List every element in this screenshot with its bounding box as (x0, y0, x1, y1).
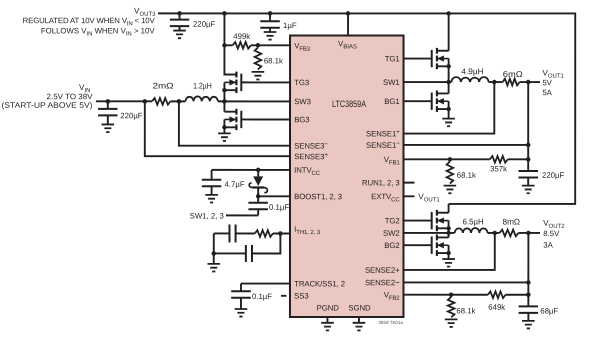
pin label INTVCC (294, 166, 321, 177)
svg-text:357k: 357k (490, 164, 507, 173)
pin label EXTVCC (371, 192, 400, 203)
junction SENSE2- on VOUT2 column (526, 280, 531, 285)
resistor R 649k (488, 291, 506, 298)
text regulated note line 1 (23, 16, 156, 27)
pin label SW1 (383, 78, 400, 87)
wire VFB1 from IC (404, 158, 490, 160)
pin label SW2 (383, 229, 400, 238)
wire ITH top branch left corner (214, 232, 230, 234)
label VIN (79, 83, 90, 94)
inductor L 6.5uH (455, 228, 488, 233)
wire ITH cap to resistor (236, 232, 255, 234)
label 68.1k VFB3 (264, 56, 283, 65)
label 220uF VOUT1 (542, 171, 565, 180)
svg-text:1µF: 1µF (283, 21, 297, 30)
ground for BG1 source (442, 109, 455, 126)
svg-text:SENSE3+: SENSE3+ (294, 152, 328, 161)
text regulated note line 2 (41, 26, 155, 37)
svg-text:SW3: SW3 (294, 97, 311, 106)
junction SENSE3- tap (177, 99, 182, 104)
label 4.9uH (461, 67, 483, 76)
wire VFB3 to divider mid (251, 44, 290, 46)
resistor R 68.1k VFB3 (255, 47, 262, 69)
label VOUT3 (134, 7, 156, 18)
svg-text:6.5µH: 6.5µH (463, 217, 484, 226)
junction VOUT1 divider top (526, 157, 531, 162)
pin label SGND (348, 304, 371, 313)
wire SENSE1- from IC (404, 144, 529, 146)
pin label SENSE1+ (366, 129, 400, 138)
junction SENSE3+ tap (143, 99, 148, 104)
ground for BG3 source (218, 127, 231, 141)
label 357k (490, 164, 507, 173)
ground for 4.7uF (205, 186, 218, 202)
ground for input cap (102, 115, 115, 132)
junction on VOUT3 rail at 220uF cap (177, 11, 182, 16)
svg-text:SW1, 2, 3: SW1, 2, 3 (190, 211, 224, 220)
pin label SS3 (294, 291, 308, 300)
wire VBIAS drop to IC (347, 13, 349, 36)
svg-text:220µF: 220µF (193, 20, 216, 29)
wire SENSE3+ kelvin (145, 101, 290, 156)
wire RUN stub (403, 182, 414, 184)
inductor L 1.2uH (185, 96, 218, 101)
junction VFB2 divider (449, 292, 454, 297)
wire inductor to 8mohm (488, 232, 500, 234)
ground for soft-start cap (235, 298, 248, 317)
ground for 68.1k VFB3 (252, 72, 265, 80)
wire INTVCC to IC (212, 169, 290, 171)
label 220uF input (120, 111, 143, 120)
text VIN startup note (2, 101, 93, 110)
wire BG2 drain to SW2 (448, 233, 450, 238)
ground for SGND pin (353, 317, 366, 330)
transistor Q BG3 bottom NFET (222, 109, 241, 130)
capacitor 68uF VOUT2 (519, 295, 539, 313)
wire TG1 drain to VOUT3 rail (448, 13, 450, 50)
svg-text:SENSE2+: SENSE2+ (365, 266, 400, 275)
svg-text:SW1: SW1 (383, 78, 400, 87)
wire ITH resistor to IC (273, 232, 290, 234)
capacitor 1uF (260, 13, 280, 27)
svg-text:68.1k: 68.1k (456, 306, 475, 315)
resistor R 2m ohm sense (152, 98, 171, 105)
pin label TG2 (385, 216, 400, 225)
label 6.5uH (463, 217, 484, 226)
op-amp U1 LTC3859A controller IC body (290, 35, 404, 317)
label 2mohm (153, 82, 174, 91)
wire 8mohm to VOUT2 (518, 232, 540, 234)
wire BOOST to IC (258, 195, 290, 197)
pin label SENSE2+ (365, 266, 400, 275)
text figure number (378, 320, 403, 325)
capacitor 220uF input (98, 101, 118, 117)
junction on VOUT3 rail at 1uF cap (268, 11, 273, 16)
pin label BG3 (294, 115, 309, 124)
svg-text:5V: 5V (542, 78, 552, 87)
ground for VOUT3 220uF (173, 26, 186, 38)
svg-text:3859 TA01a: 3859 TA01a (378, 320, 403, 325)
wire ITH bottom branch left (214, 252, 246, 254)
svg-text:0.1µF: 0.1µF (269, 203, 289, 212)
pin label BOOST1 2 3 (294, 192, 342, 201)
svg-text:6mΩ: 6mΩ (503, 70, 523, 79)
resistor R 6m ohm sense (503, 79, 520, 86)
resistor R 68.1k VFB1 (447, 162, 454, 184)
svg-text:PGND: PGND (317, 304, 340, 313)
transistor Q TG1 top NFET (432, 48, 451, 69)
svg-text:BG3: BG3 (294, 115, 309, 124)
wire VOUT1 column (527, 82, 529, 159)
ground for 1uF (264, 28, 277, 40)
junction VOUT2 divider top (526, 293, 531, 298)
wire 2mohm to inductor (171, 100, 186, 102)
pin label VBIAS (338, 39, 357, 50)
wire BG3 drain to SW3 (223, 101, 225, 111)
wire BG1 drain to SW1 (448, 82, 450, 93)
resistor R 499k (224, 42, 250, 49)
junction ITH ground node (212, 251, 217, 256)
svg-text:1.2µH: 1.2µH (193, 82, 212, 91)
svg-text:BG1: BG1 (384, 97, 399, 106)
node SW2 junction (446, 231, 451, 236)
wire boost cap to SW123 label (226, 214, 258, 216)
junction divider top (222, 43, 227, 48)
svg-text:SW2: SW2 (383, 229, 400, 238)
label 68.1k VFB1 (457, 171, 476, 180)
junction on VOUT3 rail at feedback divider column (222, 11, 227, 16)
resistor R ITH comp (255, 230, 273, 237)
junction divider mid VFB3 (256, 43, 261, 48)
label 68.1k VFB2 (456, 306, 475, 315)
pin label SW3 (294, 97, 311, 106)
svg-text:SGND: SGND (348, 304, 371, 313)
ground for ITH network (207, 253, 220, 271)
junction on VOUT3 rail at TG1 FET drain (446, 11, 451, 16)
wire SENSE2- from IC (403, 281, 528, 283)
pin label BG2 (384, 241, 399, 250)
label VOUT2 3A (543, 241, 553, 250)
node VOUT3 top rail wire (158, 13, 575, 204)
wire TRACK-SS to IC (241, 283, 290, 285)
capacitor ITH filter cap (246, 245, 252, 262)
svg-text:8mΩ: 8mΩ (503, 217, 521, 226)
svg-text:SENSE3−: SENSE3− (294, 141, 328, 150)
pin label SENSE3- (294, 141, 328, 150)
label 8mohm (503, 217, 521, 226)
ground for PGND pin (321, 317, 334, 330)
inductor L 4.9uH (452, 77, 489, 82)
transistor Q TG3 top NFET (222, 72, 241, 93)
pin label TRACK/SS1 2 (294, 279, 345, 288)
wire TG2 drain to rail (448, 204, 450, 213)
wire 6mohm to VOUT1 (520, 81, 541, 83)
wire inductor to SW3 node and SW3 pin (218, 100, 290, 102)
svg-text:BG2: BG2 (384, 241, 399, 250)
label SW1 2 3 (190, 211, 224, 220)
svg-text:3A: 3A (543, 241, 553, 250)
wire SENSE1+ kelvin (404, 82, 495, 134)
capacitor 220uF on VOUT3 (170, 13, 189, 27)
svg-text:4.7µF: 4.7µF (224, 180, 244, 189)
text VIN range (47, 92, 94, 101)
capacitor ITH series cap (229, 224, 235, 242)
svg-text:649k: 649k (488, 303, 505, 312)
svg-text:SENSE1−: SENSE1− (366, 141, 400, 150)
svg-text:TRACK/SS1, 2: TRACK/SS1, 2 (294, 279, 345, 288)
junction SENSE1+ tap (492, 80, 497, 85)
label VOUT1 (542, 68, 564, 79)
junction SENSE1- on VOUT1 column (526, 143, 531, 148)
resistor R 357k (490, 156, 508, 163)
pin label SENSE2- (365, 278, 400, 287)
svg-text:220µF: 220µF (120, 111, 143, 120)
pin label TG1 (385, 54, 400, 63)
wire 357k to VOUT1 column (508, 158, 528, 160)
wire ITH branch vertical left (213, 233, 215, 253)
wire ITH bottom branch right (252, 233, 280, 253)
capacitor 0.1uF soft-start (231, 284, 251, 298)
label 649k (488, 303, 505, 312)
junction SENSE2+ tap (493, 231, 498, 236)
wire BG2 gate to IC (403, 244, 431, 246)
junction INTVCC diode anode (256, 168, 261, 173)
label 4.7uF (224, 180, 244, 189)
label VOUT1 5A (542, 88, 552, 97)
transistor Q TG2 top NFET (432, 210, 451, 231)
svg-text:0.1µF: 0.1µF (252, 292, 272, 301)
wire VOUT3 column to divider and TG3 drain (224, 13, 236, 74)
label VOUT2 8.5V (543, 229, 560, 238)
svg-text:220µF: 220µF (542, 171, 565, 180)
wire VOUT2 column (527, 233, 529, 295)
svg-text:TG3: TG3 (294, 78, 309, 87)
wire BG3 gate to IC (241, 118, 290, 120)
ground for VOUT1 220uF (522, 177, 535, 193)
svg-text:68.1k: 68.1k (264, 56, 283, 65)
svg-text:5A: 5A (542, 88, 552, 97)
svg-text:4.9µH: 4.9µH (461, 67, 483, 76)
pin label ITH1 2 3 (294, 225, 321, 236)
pin label VFB1 (384, 155, 401, 166)
pin label PGND (317, 304, 340, 313)
label VOUT2 (543, 219, 565, 230)
node SW1 junction (446, 80, 451, 85)
pin label TG3 (294, 78, 309, 87)
svg-text:BOOST1, 2, 3: BOOST1, 2, 3 (294, 192, 342, 201)
wire VFB2 from IC (403, 294, 487, 296)
svg-text:SS3: SS3 (294, 291, 308, 300)
wire BG1 gate to IC (404, 100, 432, 102)
capacitor 220uF VOUT1 (518, 159, 538, 177)
resistor R 8m ohm sense (499, 230, 518, 237)
junction ITH pin node (278, 231, 283, 236)
svg-text:SENSE1+: SENSE1+ (366, 129, 400, 138)
svg-text:(START-UP ABOVE 5V): (START-UP ABOVE 5V) (2, 101, 93, 110)
pin label SENSE1- (366, 141, 400, 150)
wire 649k to VOUT2 column (506, 294, 529, 296)
svg-text:TG2: TG2 (385, 216, 400, 225)
transistor Q BG2 bottom NFET (432, 235, 451, 256)
label 6mohm (503, 70, 523, 79)
wire TG3 source to SW3 (223, 90, 225, 101)
pin label SENSE3+ (294, 152, 328, 161)
pin label VFB3 (294, 41, 311, 52)
svg-text:TG1: TG1 (385, 54, 400, 63)
wire TG2 gate to IC (403, 220, 431, 222)
node VOUT2 junction (526, 231, 531, 236)
svg-text:68.1k: 68.1k (457, 171, 476, 180)
junction on VOUT3 rail at VBIAS (346, 11, 351, 16)
wire SENSE2+ kelvin (403, 233, 494, 270)
svg-text:2mΩ: 2mΩ (153, 82, 174, 91)
svg-text:RUN1, 2, 3: RUN1, 2, 3 (362, 178, 400, 187)
wire SENSE3- kelvin (179, 101, 290, 145)
label 68uF (540, 306, 558, 315)
wire SS3 stub (281, 295, 287, 297)
wire VIN line (96, 100, 152, 102)
wire inductor to 6mohm (489, 81, 503, 83)
junction VFB1 divider (448, 157, 453, 162)
node SW3 junction (222, 99, 227, 104)
capacitor 0.1uF boost (248, 196, 268, 215)
resistor R 68.1k VFB2 (448, 297, 455, 317)
label VOUT1 at EXTVCC (418, 192, 440, 203)
svg-text:8.5V: 8.5V (543, 229, 560, 238)
text IC name LTC3859A (332, 99, 367, 109)
svg-text:LTC3859A: LTC3859A (332, 99, 367, 109)
label 499k (233, 32, 250, 41)
ground for 68.1k VFB2 (445, 319, 458, 327)
svg-text:SENSE2−: SENSE2− (365, 278, 400, 287)
label VOUT1 5V (542, 78, 552, 87)
ground for 68uF (522, 313, 535, 329)
wire TG2 source to SW2 (448, 228, 450, 233)
pin label RUN1 2 3 (362, 178, 400, 187)
wire TG1 gate to IC (404, 58, 432, 60)
junction VIN at input cap (106, 99, 111, 104)
diode D boost schottky (249, 170, 267, 196)
label 0.1uF boost (269, 203, 289, 212)
pin label BG1 (384, 97, 399, 106)
ground for BG2 source (442, 253, 455, 267)
label 1.2uH (193, 82, 212, 91)
capacitor 4.7uF INTVCC (202, 170, 222, 186)
node VOUT1 junction (526, 80, 531, 85)
wire EXTVCC stub (403, 195, 414, 197)
wire TG3 gate to IC (241, 81, 290, 83)
label 0.1uF soft-start (252, 292, 272, 301)
wire SW2 from IC (403, 232, 454, 234)
svg-text:68µF: 68µF (540, 306, 558, 315)
ground for 68.1k VFB1 (444, 186, 457, 194)
transistor Q BG1 bottom NFET (432, 91, 451, 112)
wire TG1 source to SW1 (448, 66, 450, 82)
pin label VFB2 (384, 291, 401, 302)
junction BOOST node (256, 194, 261, 199)
label 1uF (283, 21, 297, 30)
label 220uF VOUT3 cap (193, 20, 216, 29)
wire SW1 from IC (404, 81, 452, 83)
svg-text:499k: 499k (233, 32, 250, 41)
